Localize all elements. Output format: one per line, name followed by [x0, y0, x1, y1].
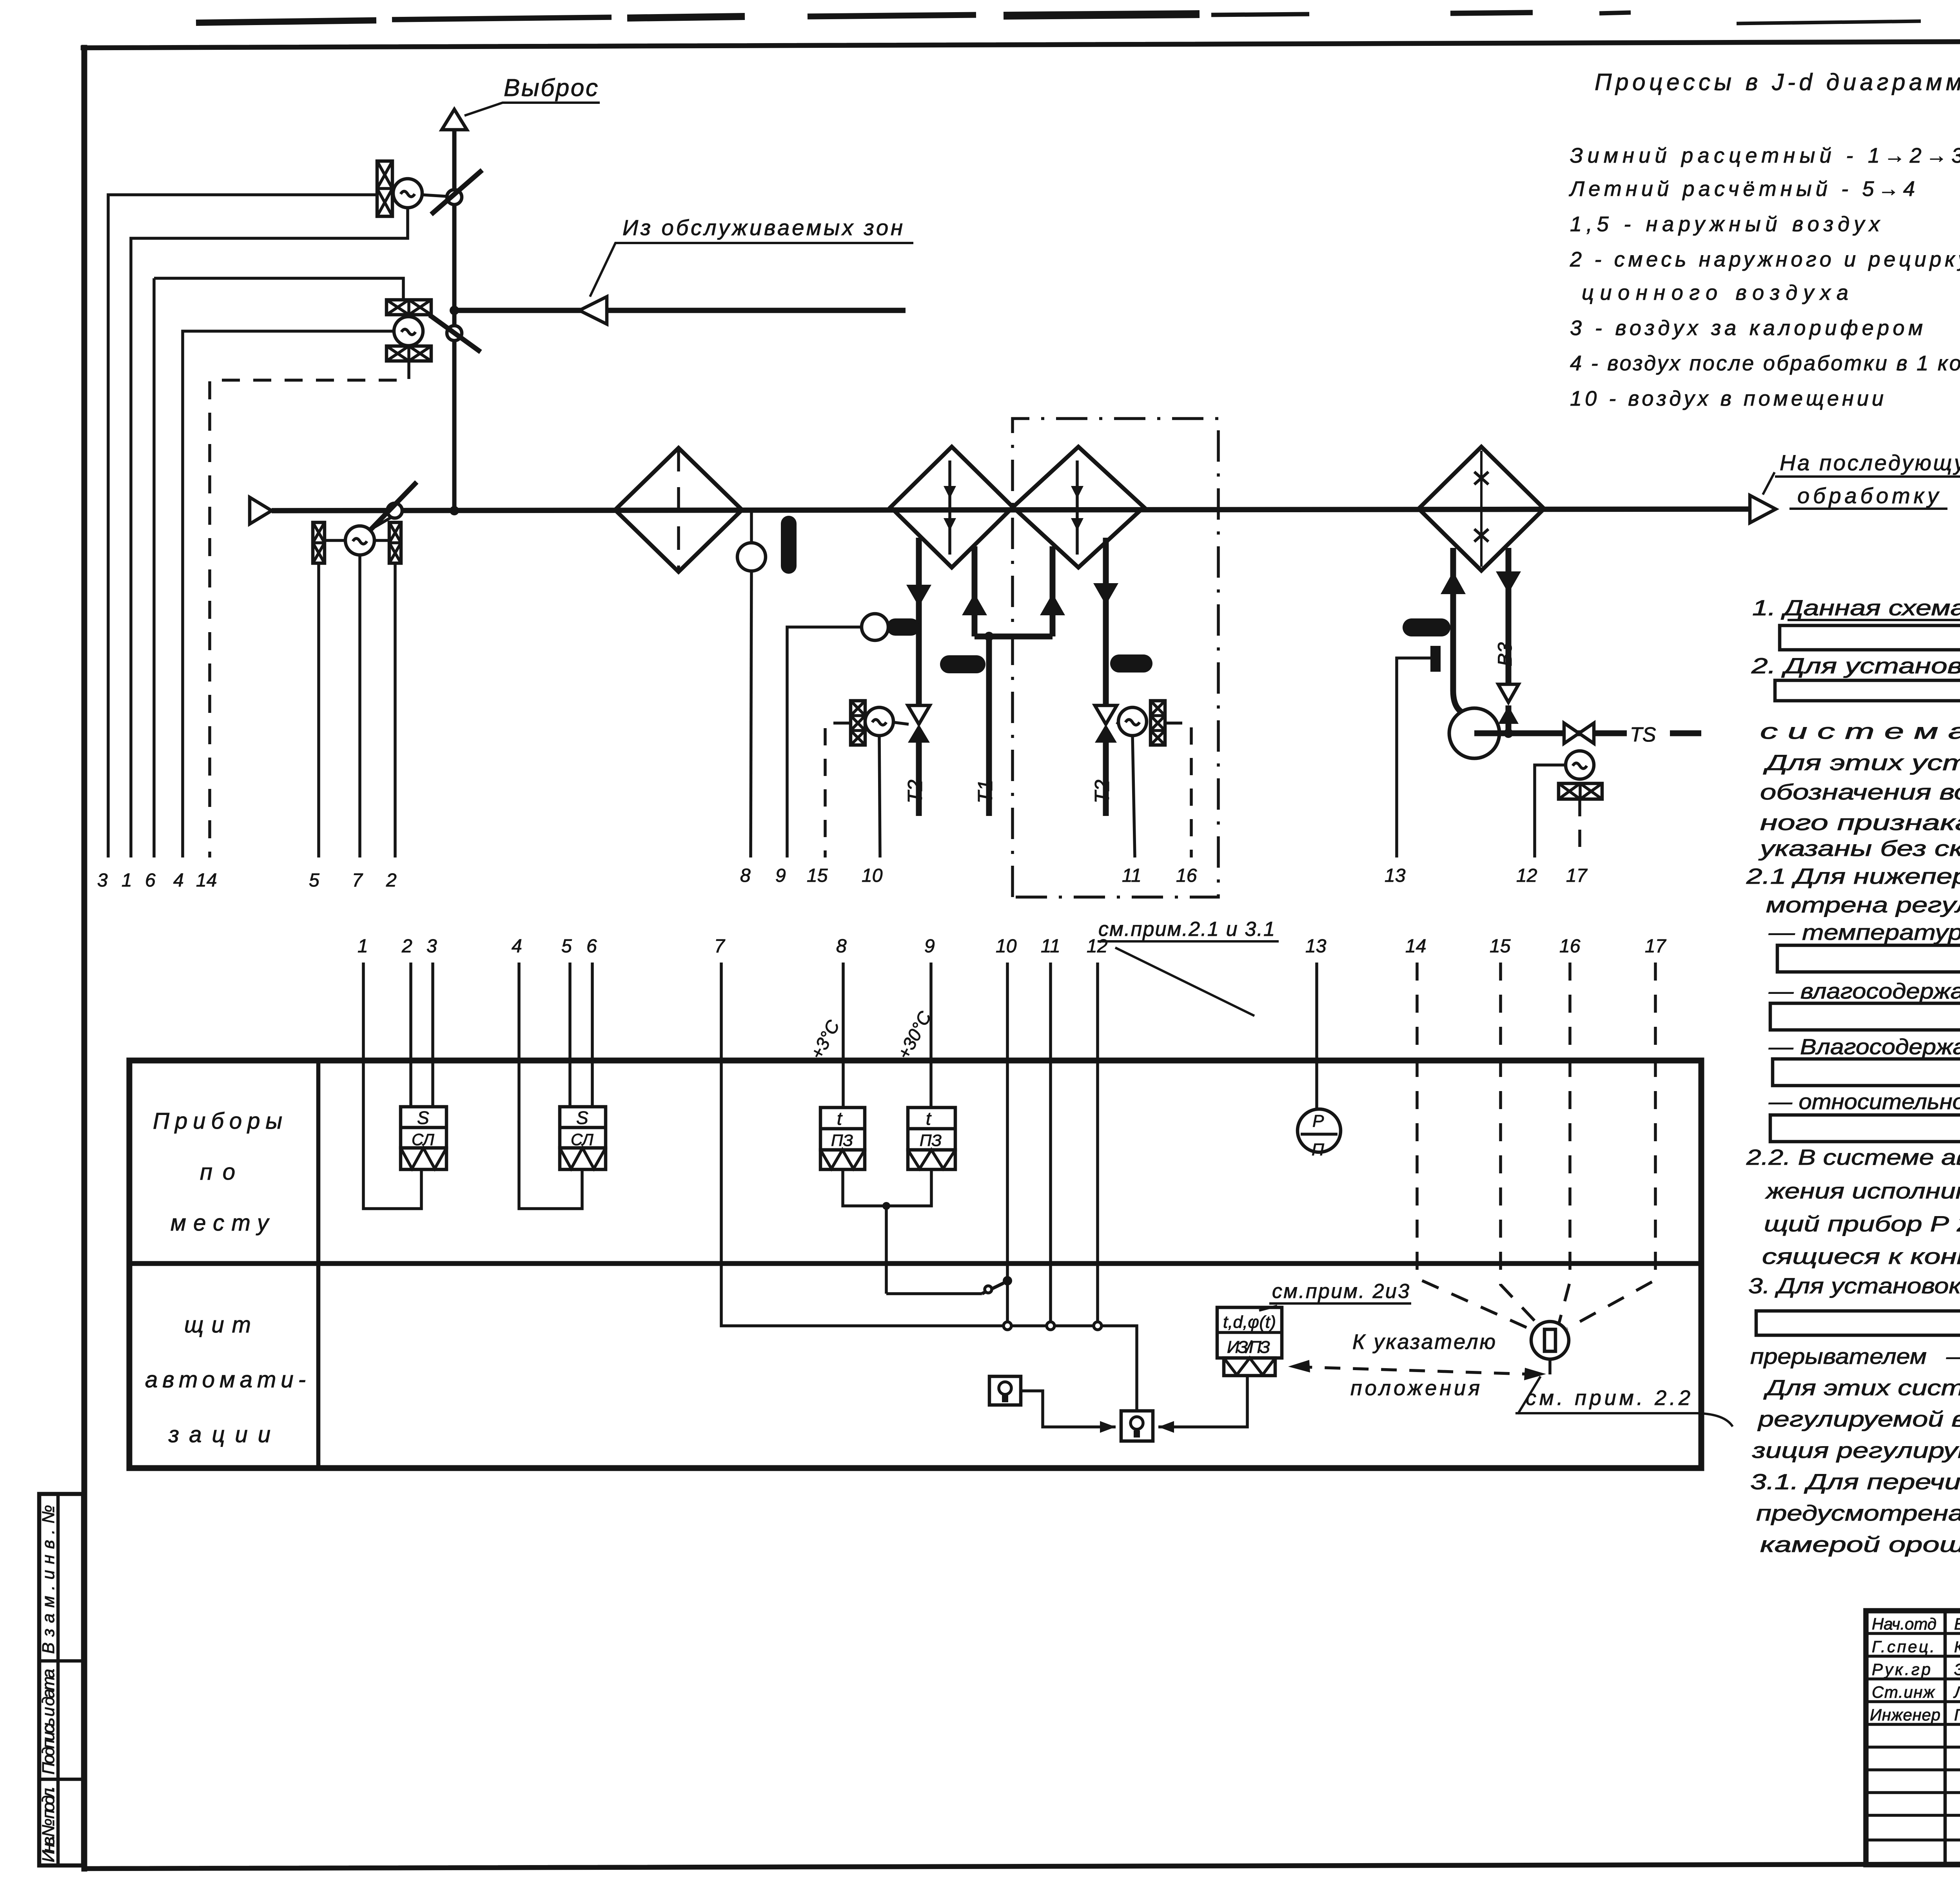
label Выброс leader — [465, 103, 600, 116]
svg-text:Т1: Т1 — [974, 780, 997, 803]
svg-text:7: 7 — [714, 936, 726, 957]
wire K1 to K2 — [1021, 1391, 1116, 1427]
outlet triangle — [1750, 495, 1776, 523]
см.прим. 2.2 leader — [1518, 1376, 1541, 1414]
wire 2 — [394, 563, 397, 857]
svg-text:положения: положения — [1350, 1376, 1480, 1400]
main duct line — [272, 509, 1749, 511]
svg-text:Лазаренко: Лазаренко — [1953, 1683, 1960, 1701]
svg-text:1. Данная схема применена д: 1. Данная схема применена для следующих … — [1752, 595, 1960, 620]
fan actuator M1 motor — [393, 179, 422, 208]
valve actuator M4 hatch — [851, 701, 865, 745]
svg-text:6: 6 — [586, 936, 597, 957]
svg-text:см.прим. 2и3: см.прим. 2и3 — [1272, 1280, 1409, 1303]
svg-text:S: S — [417, 1108, 429, 1128]
line 14 dashed — [1417, 963, 1534, 1331]
svg-text:Выброс: Выброс — [504, 74, 598, 102]
damper D1 — [447, 190, 462, 205]
svg-text:1: 1 — [358, 936, 368, 957]
svg-text:Крастышевский: Крастышевский — [1954, 1639, 1960, 1656]
inlet triangle — [250, 497, 272, 524]
heater2 control valve — [1095, 705, 1117, 724]
blank box humidity1 setpoint — [1770, 1003, 1960, 1030]
supply header — [975, 634, 1053, 640]
svg-text:2: 2 — [386, 870, 397, 891]
temperature sensor after filter — [750, 511, 753, 543]
fan actuator M2 hatch lower — [387, 346, 431, 361]
spray chamber diamond — [1419, 447, 1544, 571]
см.прим.2.1и3.1 leader — [1098, 940, 1279, 943]
personnel table columns — [1944, 1611, 1947, 1865]
B3 valve — [1498, 684, 1519, 702]
blank box note3 left — [1756, 1311, 1960, 1335]
svg-text:3. Для установок кондиционир: 3. Для установок кондиционирования — [1748, 1273, 1960, 1298]
valve actuator M4 motor — [865, 707, 893, 736]
J-d legend text — [1569, 69, 1960, 410]
sensor pocket heater2 — [1110, 654, 1152, 673]
blank box humidity2 setpoint — [1773, 1059, 1960, 1086]
svg-text:К указателю: К указателю — [1352, 1330, 1495, 1354]
relay K1 — [989, 1376, 1021, 1405]
svg-text:Евтушенко: Евтушенко — [1954, 1615, 1960, 1633]
line 11 — [1049, 963, 1052, 1326]
wire 8 — [751, 571, 751, 857]
svg-text:На последующую: На последующую — [1780, 450, 1960, 475]
heater 2 diamond — [1013, 447, 1144, 567]
svg-text:5: 5 — [309, 870, 319, 891]
wire 10 — [879, 736, 880, 857]
instrument table (Приборы по месту / Щит автоматизации) — [129, 1060, 1701, 1468]
svg-text:щий прибор Р 25.1.2 индикат: щий прибор Р 25.1.2 индикатору. На схеме… — [1764, 1211, 1960, 1236]
pump — [1449, 708, 1499, 758]
svg-text:11: 11 — [1122, 865, 1142, 886]
spray return pipe B3 — [1506, 548, 1512, 733]
svg-text:П: П — [1312, 1140, 1324, 1159]
filter diamond — [615, 448, 742, 572]
position indicator link dashed — [1290, 1359, 1550, 1375]
svg-text:Инженер: Инженер — [1870, 1706, 1940, 1724]
svg-text:Для этих систем в условном: Для этих систем в условном изображении р… — [1763, 1375, 1960, 1400]
wire 17 dashed — [1578, 799, 1581, 857]
svg-text:17: 17 — [1566, 865, 1588, 886]
label На последующую обработку leader — [1763, 472, 1775, 495]
svg-text:— относительной влажности в: — относительной влажности в обслуживаемо… — [1768, 1089, 1960, 1114]
svg-text:— влагосодержания за камерой: — влагосодержания за камерой орошения, у… — [1768, 979, 1960, 1003]
valve actuator M5 hatch — [1151, 701, 1165, 745]
svg-text:ПЗ: ПЗ — [920, 1131, 942, 1149]
valve actuator M6 hatch — [1559, 783, 1602, 799]
line 15 dashed — [1501, 963, 1540, 1326]
line 3 — [431, 963, 434, 1107]
svg-text:10: 10 — [862, 865, 883, 886]
heater 2 flow line — [1076, 460, 1079, 555]
svg-text:2: 2 — [401, 936, 412, 957]
svg-text:2.2. В системе автоматизации: 2.2. В системе автоматизации 1класса пре… — [1746, 1145, 1960, 1169]
wire 14 dashed — [210, 361, 409, 857]
svg-text:t,d,φ(t): t,d,φ(t) — [1223, 1312, 1276, 1332]
svg-text:— Влагосодержания в обслужива: — Влагосодержания в обслуживаемой зоне ,… — [1768, 1034, 1960, 1059]
svg-text:Рук.гр: Рук.гр — [1872, 1660, 1931, 1679]
manometer S/СЛ no.1 — [401, 1107, 446, 1169]
svg-text:4: 4 — [512, 936, 522, 957]
svg-text:Ст.инж: Ст.инж — [1872, 1683, 1935, 1701]
heater1 control valve — [908, 705, 930, 724]
svg-text:ного признака, а также пози: ного признака, а также позиция регулирую… — [1760, 810, 1960, 835]
line 16 dashed — [1559, 963, 1570, 1323]
sensor pocket on T1 riser — [940, 655, 985, 673]
regulator output wire — [1158, 1376, 1247, 1427]
regulator t,d,phi box — [1217, 1307, 1282, 1376]
pump discharge line — [1474, 731, 1701, 736]
svg-text:— температуры воздуха за к: — температуры воздуха за камерой орошени… — [1768, 920, 1960, 944]
svg-text:4: 4 — [173, 870, 184, 891]
wire 11 — [1132, 736, 1135, 857]
svg-text:сящиеся к контролю положени: сящиеся к контролю положения, показаны ш… — [1762, 1244, 1960, 1269]
position regulator circle — [1531, 1322, 1569, 1359]
make-up valve TS — [1564, 723, 1594, 743]
svg-text:ИЗ/ПЗ: ИЗ/ПЗ — [1227, 1338, 1270, 1357]
exhaust outlet triangle — [442, 109, 467, 130]
relay K2 — [1121, 1411, 1153, 1441]
wire 12 — [1535, 765, 1566, 857]
wire 16 dashed — [1165, 723, 1191, 857]
nozzle marks — [1474, 472, 1488, 542]
svg-text:обозначения возможных регули: обозначения возможных регулируемых велич… — [1760, 780, 1960, 804]
line 5 — [568, 963, 572, 1107]
title block — [1866, 1611, 1960, 1865]
svg-text:9: 9 — [775, 865, 786, 886]
svg-text:камерой орошения. Позиция: камерой орошения. Позиция датчика — [1760, 1532, 1960, 1557]
note underline for item 1 — [1788, 619, 1960, 621]
svg-text:Нач.отд: Нач.отд — [1872, 1615, 1936, 1633]
thermostat interconnection — [843, 1169, 931, 1206]
actuator M3 hatch left — [313, 522, 325, 563]
svg-text:11: 11 — [1041, 936, 1060, 957]
svg-text:12: 12 — [1516, 865, 1537, 886]
svg-text:13: 13 — [1385, 865, 1406, 886]
thermostat t/ПЗ no.2 — [908, 1108, 955, 1169]
thermostat t/ПЗ no.1 — [820, 1108, 865, 1169]
fan actuator M1 hatch — [377, 161, 392, 216]
svg-text:Г.спец.: Г.спец. — [1872, 1637, 1935, 1656]
svg-text:3: 3 — [97, 870, 108, 891]
svg-text:В3: В3 — [1494, 642, 1516, 666]
svg-text:см.прим.2.1 и 3.1: см.прим.2.1 и 3.1 — [1098, 918, 1275, 941]
heater1 return pipe T2 — [916, 538, 922, 816]
svg-text:t: t — [926, 1108, 932, 1129]
contact circles on bus — [1004, 1322, 1011, 1330]
blank box note2 left — [1775, 680, 1960, 701]
fan actuator M2 hatch upper — [387, 300, 431, 315]
svg-text:ционного воздуха: ционного воздуха — [1582, 281, 1848, 305]
svg-text:S: S — [576, 1108, 588, 1128]
svg-text:16: 16 — [1176, 865, 1197, 886]
svg-text:6: 6 — [145, 870, 156, 891]
personnel rows — [1866, 1633, 1960, 1840]
svg-text:обработку: обработку — [1797, 483, 1940, 508]
manometer S/СЛ no.2 — [560, 1107, 606, 1169]
damper D2 — [447, 326, 462, 341]
heater 1 flow line — [948, 460, 951, 555]
left table label Взам.инв.№ — [39, 1505, 58, 1862]
thermometer pocket — [781, 516, 797, 574]
wire 4 — [183, 331, 394, 857]
suction sensor tap — [1430, 646, 1441, 672]
pipe sensor bulb circle — [862, 614, 888, 640]
line 17 dashed — [1567, 963, 1655, 1329]
svg-text:8: 8 — [740, 865, 751, 886]
selector switch — [886, 1292, 982, 1295]
svg-text:10: 10 — [996, 936, 1017, 957]
wire 1 — [131, 208, 408, 857]
valve actuator M6 motor — [1566, 751, 1594, 779]
svg-text:3: 3 — [426, 936, 437, 957]
blank box temp setpoint — [1777, 945, 1960, 972]
svg-text:3.1. Для перечисленных В: 3.1. Для перечисленных В пуккте 3 устано… — [1750, 1469, 1960, 1494]
svg-text:2 - смесь наружного и рециркул: 2 - смесь наружного и рециркуля- — [1570, 248, 1960, 271]
svg-text:1: 1 — [122, 870, 132, 891]
svg-text:7: 7 — [352, 870, 363, 891]
outlet label — [1780, 450, 1960, 508]
wire 9 — [787, 627, 862, 857]
svg-text:—: — — [1946, 1344, 1960, 1369]
svg-text:Подпись и дата: Подпись и дата — [39, 1669, 58, 1775]
actuator M3 motor — [345, 526, 374, 555]
wire 3 — [108, 195, 377, 857]
suction sensor pocket — [1403, 618, 1450, 636]
scan artifacts along top edge — [196, 11, 1960, 36]
svg-text:Инв.№ подл.: Инв.№ подл. — [39, 1786, 58, 1862]
valve actuator M5 motor — [1118, 707, 1147, 736]
line 10 — [1006, 963, 1009, 1326]
pressure gauge Р/П — [1298, 1109, 1341, 1152]
heater2 return pipe T2 — [1103, 538, 1109, 816]
actuator M3 hatch right — [389, 522, 401, 563]
svg-text:Р: Р — [1312, 1111, 1324, 1131]
svg-text:жения исполнительных механиз: жения исполнительных механизмов по встро… — [1764, 1178, 1960, 1203]
label ТS on line — [1627, 724, 1670, 743]
svg-text:8: 8 — [836, 936, 847, 957]
heater 1 diamond — [891, 447, 1013, 567]
svg-text:Горшенино: Горшенино — [1954, 1706, 1960, 1724]
T1 riser — [986, 636, 992, 816]
recirculation damper D3 — [387, 503, 402, 518]
left edge vertical table — [39, 1494, 83, 1865]
svg-text:ТS: ТS — [1630, 723, 1656, 746]
line 2 — [409, 963, 412, 1107]
wire 6 — [154, 278, 403, 857]
svg-text:t: t — [837, 1108, 843, 1129]
svg-text:прерывателем: прерывателем — [1750, 1344, 1927, 1369]
svg-text:Для этих установок в условн: Для этих установок в условном изображени… — [1763, 750, 1960, 775]
blank box rel humidity setpoint — [1770, 1115, 1960, 1142]
wire 7 — [358, 555, 361, 857]
svg-text:14: 14 — [196, 870, 217, 891]
line 6 — [591, 963, 594, 1107]
line 4 — [519, 963, 582, 1209]
line 1 — [363, 963, 421, 1209]
line 13 — [1315, 963, 1318, 1109]
heater2 supply pipe — [1050, 546, 1056, 636]
exhaust duct — [452, 130, 457, 511]
svg-text:автомати-: автомати- — [145, 1367, 306, 1392]
junction duct/return — [450, 306, 459, 315]
svg-text:17: 17 — [1645, 936, 1667, 957]
svg-text:СЛ: СЛ — [412, 1130, 434, 1149]
line 7 — [721, 963, 1137, 1411]
blank box note1 — [1780, 625, 1960, 650]
svg-text:15: 15 — [1490, 936, 1511, 957]
svg-text:зиция регулирующего прибора: зиция регулирующего прибора указаны в ск… — [1752, 1438, 1960, 1463]
second-loop dash-dot frame — [1013, 419, 1218, 897]
suction pipe — [1453, 548, 1471, 715]
svg-text:15: 15 — [807, 865, 828, 886]
return inlet triangle — [579, 297, 607, 324]
svg-text:см. прим. 2.2: см. прим. 2.2 — [1526, 1386, 1690, 1410]
svg-text:с и с т е м а: с и с т е м а — [1760, 719, 1960, 743]
svg-text:Зингерман: Зингерман — [1954, 1660, 1960, 1679]
svg-text:4 - воздух после обработки в 1: 4 - воздух после обработки в 1 контуре — [1570, 352, 1960, 375]
svg-text:указаны без скобок.: указаны без скобок. — [1758, 836, 1960, 861]
label Из обслуживаемых зон leader — [590, 243, 913, 297]
wire 15 dashed — [825, 723, 851, 857]
svg-text:СЛ: СЛ — [571, 1130, 593, 1149]
fan actuator M2 motor — [394, 317, 423, 346]
return air line — [454, 308, 906, 313]
svg-text:Т2: Т2 — [904, 780, 927, 803]
svg-text:2. Для установок кондиционир: 2. Для установок кондиционирования — [1751, 653, 1960, 678]
svg-text:Зимний расцетный - 1→2→3→4: Зимний расцетный - 1→2→3→4 — [1570, 144, 1960, 167]
svg-text:9: 9 — [924, 936, 935, 957]
svg-text:щит: щит — [184, 1312, 251, 1338]
svg-text:16: 16 — [1559, 936, 1581, 957]
svg-text:14: 14 — [1405, 936, 1426, 957]
svg-text:Процессы в J-d диаграмме: Процессы в J-d диаграмме — [1595, 69, 1960, 95]
line 12 — [1096, 963, 1099, 1326]
svg-text:мотрена регулирование следую: мотрена регулирование следующих параметр… — [1766, 892, 1960, 917]
junction main/exhaust — [450, 506, 459, 515]
line 8 — [842, 963, 845, 1108]
svg-text:предусмотрена регулирование: предусмотрена регулирование температуры … — [1756, 1501, 1960, 1525]
svg-text:5: 5 — [561, 936, 572, 957]
см.прим 2и3 leader — [1259, 1306, 1277, 1311]
line 9 — [929, 963, 933, 1108]
heater1 supply pipe — [972, 546, 978, 636]
svg-text:13: 13 — [1305, 936, 1327, 957]
svg-text:2.1 Для нижеперечисленных: 2.1 Для нижеперечисленных установок конд… — [1746, 864, 1960, 888]
svg-text:регулируемой величины и функ: регулируемой величины и функционального … — [1757, 1407, 1960, 1431]
svg-text:ПЗ: ПЗ — [831, 1131, 853, 1149]
wire 5 — [317, 563, 320, 857]
svg-text:Т2: Т2 — [1091, 780, 1114, 803]
